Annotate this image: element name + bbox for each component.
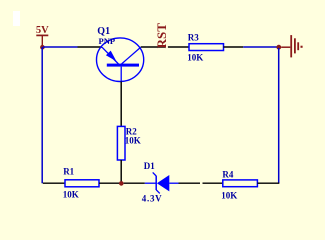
power port 5V bbox=[36, 25, 49, 46]
pin R1 right bbox=[99, 182, 120, 184]
pin R4 right bbox=[257, 182, 279, 184]
junction at R1/R2/D1 node bbox=[119, 181, 124, 186]
wire from R3 to ground node bbox=[243, 46, 277, 48]
diode D1 (zener) bbox=[145, 172, 179, 193]
svg-text:10K: 10K bbox=[63, 189, 79, 199]
pin R3 right bbox=[224, 46, 244, 48]
svg-text:4.3V: 4.3V bbox=[142, 194, 163, 204]
junction at ground node bbox=[276, 45, 281, 50]
wire left vertical from 5V node down to R1 bbox=[41, 47, 43, 183]
pin R3 left bbox=[168, 46, 189, 48]
resistor R2 bbox=[117, 126, 125, 160]
pin R1 left bbox=[43, 182, 65, 184]
svg-text:10K: 10K bbox=[221, 191, 237, 201]
svg-text:R4: R4 bbox=[222, 170, 233, 180]
svg-text:R3: R3 bbox=[188, 32, 199, 42]
svg-text:RST: RST bbox=[154, 23, 169, 49]
wire right vertical from ground node down to R4 bbox=[278, 48, 280, 183]
svg-text:R1: R1 bbox=[63, 166, 74, 176]
resistor R1 bbox=[65, 180, 99, 187]
transistor Q1 bbox=[97, 38, 144, 82]
svg-text:10K: 10K bbox=[125, 135, 141, 145]
svg-text:D1: D1 bbox=[144, 161, 155, 171]
pin R4 left bbox=[203, 182, 223, 184]
resistor R3 bbox=[189, 44, 224, 51]
resistor R4 bbox=[223, 180, 258, 187]
pin D1 right bbox=[179, 182, 201, 184]
ground bbox=[281, 35, 302, 57]
pin Q1 collector bbox=[141, 46, 166, 48]
pin Q1 base / pin R2 top bbox=[120, 82, 122, 127]
svg-text:PNP: PNP bbox=[99, 36, 116, 46]
pin Q1 emitter bbox=[78, 46, 103, 48]
junction at 5V node bbox=[40, 45, 45, 50]
pin R2 bottom bbox=[120, 160, 122, 183]
svg-text:5V: 5V bbox=[36, 25, 49, 36]
wire from 5V node to Q1 emitter bbox=[43, 46, 78, 48]
svg-text:10K: 10K bbox=[187, 52, 203, 62]
pin D1 left bbox=[124, 182, 145, 184]
